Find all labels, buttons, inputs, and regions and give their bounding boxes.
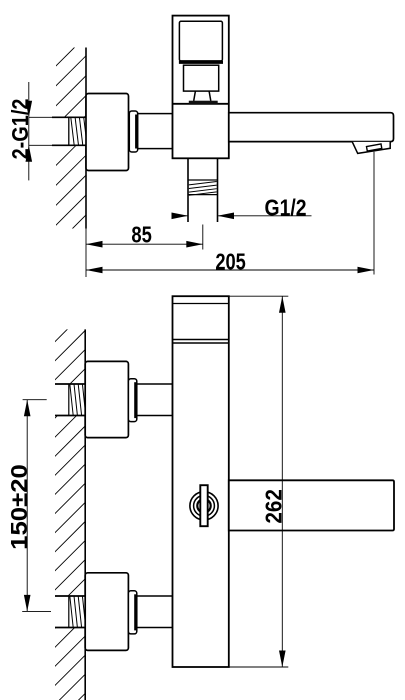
svg-text:262: 262 (260, 489, 286, 524)
svg-text:85: 85 (131, 222, 152, 248)
svg-text:G1/2: G1/2 (265, 194, 307, 220)
svg-text:205: 205 (215, 249, 246, 275)
svg-text:150±20: 150±20 (7, 464, 32, 550)
svg-text:2-G1/2: 2-G1/2 (8, 99, 34, 160)
